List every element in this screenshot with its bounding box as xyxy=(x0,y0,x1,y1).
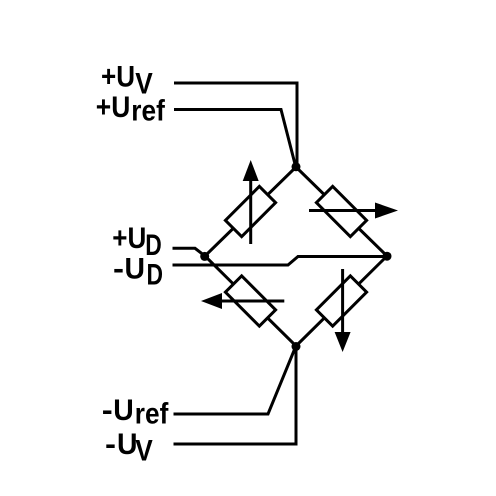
svg-text:+U: +U xyxy=(101,61,135,94)
svg-text:V: V xyxy=(135,435,153,468)
svg-text:ref: ref xyxy=(131,95,165,128)
svg-text:D: D xyxy=(147,259,164,292)
svg-text:+U: +U xyxy=(112,222,146,255)
svg-text:U: U xyxy=(113,394,134,427)
svg-text:ref: ref xyxy=(135,398,169,431)
svg-text:-: - xyxy=(102,394,113,427)
svg-text:U: U xyxy=(125,253,146,286)
svg-text:+U: +U xyxy=(96,91,131,124)
svg-text:-: - xyxy=(113,253,124,286)
svg-text:-: - xyxy=(105,428,116,461)
svg-text:D: D xyxy=(145,229,162,262)
